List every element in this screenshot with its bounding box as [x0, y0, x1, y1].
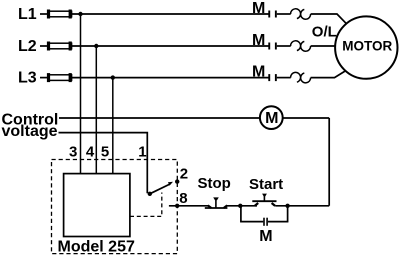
wire L2 drop to pin 4 — [95, 46, 97, 174]
svg-text:M: M — [265, 110, 278, 127]
wire contact1 to overload1 — [277, 13, 291, 15]
wire holding branch bottom right — [268, 221, 289, 223]
svg-text:5: 5 — [101, 144, 109, 161]
wire L2 lead — [40, 45, 48, 47]
svg-text:1: 1 — [138, 143, 146, 160]
node junction L3 — [111, 75, 115, 79]
svg-text:4: 4 — [86, 144, 95, 161]
wire start to right rail — [275, 205, 329, 207]
wire overload1 to motor — [311, 14, 347, 24]
terminal 2 node — [175, 179, 179, 183]
svg-text:Stop: Stop — [198, 175, 231, 192]
wire holding branch right leg — [287, 206, 289, 222]
wire right rail — [328, 118, 330, 206]
wire L1 lead — [40, 13, 48, 15]
contact M phase-2 — [268, 43, 277, 50]
motor circle — [335, 16, 397, 78]
box Model 257 — [64, 174, 130, 237]
overload heater OL3 — [291, 72, 311, 82]
wire contact2 to overload2 — [277, 45, 291, 47]
contact M phase-3 — [268, 74, 277, 81]
overload heater OL1 — [291, 9, 311, 19]
mechanical link dashed — [130, 193, 162, 217]
wire terminal 8 to stop — [169, 205, 208, 207]
pushbutton Start NO — [252, 194, 276, 206]
wire overload3 to motor — [311, 71, 346, 78]
wire L1 drop to pin 3 — [80, 14, 82, 174]
wire L3 drop to pin 5 — [112, 78, 114, 174]
wire holding branch bottom left — [240, 221, 263, 223]
svg-text:M: M — [259, 228, 272, 245]
node junction start-right — [285, 204, 289, 208]
contact M holding — [263, 218, 268, 226]
overload heater OL2 — [291, 41, 311, 51]
wire control to coil — [59, 117, 260, 119]
svg-text:M: M — [252, 0, 265, 17]
wire L3 lead — [40, 77, 48, 79]
svg-text:8: 8 — [179, 190, 187, 207]
wire L3 to contact — [72, 77, 269, 79]
svg-text:M: M — [252, 32, 265, 49]
fuse F2 — [47, 42, 72, 51]
svg-text:Model 257: Model 257 — [58, 239, 135, 256]
wire coil to right rail — [283, 117, 330, 119]
node junction L2 — [94, 44, 98, 48]
switch arm arrowhead — [168, 182, 173, 186]
contact M phase-1 — [268, 11, 277, 18]
fuse F1 — [47, 10, 72, 19]
svg-text:voltage: voltage — [2, 123, 58, 140]
pushbutton Stop NC — [205, 197, 228, 208]
svg-text:M: M — [252, 64, 265, 81]
wire L2 to contact — [72, 45, 269, 47]
svg-text:3: 3 — [69, 144, 77, 161]
svg-text:2: 2 — [180, 165, 188, 182]
node junction stop-start — [238, 204, 242, 208]
svg-text:L2: L2 — [18, 38, 37, 55]
wire voltage to pin 1 — [59, 133, 148, 194]
wire holding branch left leg — [240, 206, 242, 222]
svg-text:Start: Start — [249, 176, 283, 193]
wire overload2 to motor — [311, 45, 337, 47]
svg-text:MOTOR: MOTOR — [342, 39, 392, 54]
terminal 8 node — [175, 204, 179, 208]
svg-text:L3: L3 — [18, 70, 37, 87]
switch pivot node — [148, 192, 152, 196]
svg-text:O/L: O/L — [312, 23, 337, 40]
node junction L1 — [78, 12, 82, 16]
dashed enclosure Model 257 — [52, 160, 178, 254]
svg-text:L1: L1 — [18, 6, 37, 23]
coil M — [260, 106, 283, 129]
wire stop to start — [227, 205, 257, 207]
wire contact3 to overload3 — [277, 77, 291, 79]
wire L1 to contact — [72, 13, 269, 15]
fuse F3 — [47, 73, 72, 82]
switch arm — [150, 184, 170, 194]
